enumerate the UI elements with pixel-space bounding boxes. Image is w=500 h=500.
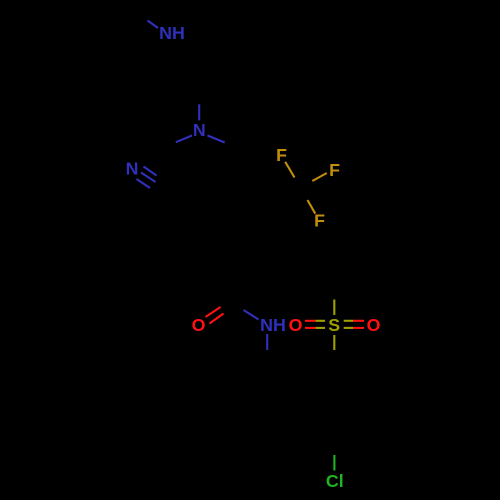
svg-text:N: N	[126, 159, 139, 179]
svg-text:O: O	[289, 315, 303, 335]
svg-text:S: S	[328, 315, 340, 335]
svg-text:O: O	[192, 315, 206, 335]
svg-text:F: F	[329, 160, 340, 180]
svg-text:NH: NH	[159, 23, 185, 43]
svg-text:F: F	[276, 145, 287, 165]
svg-text:F: F	[314, 210, 325, 230]
svg-text:O: O	[367, 315, 381, 335]
svg-text:NH: NH	[260, 315, 286, 335]
svg-text:Cl: Cl	[326, 471, 344, 491]
svg-text:N: N	[193, 120, 206, 140]
